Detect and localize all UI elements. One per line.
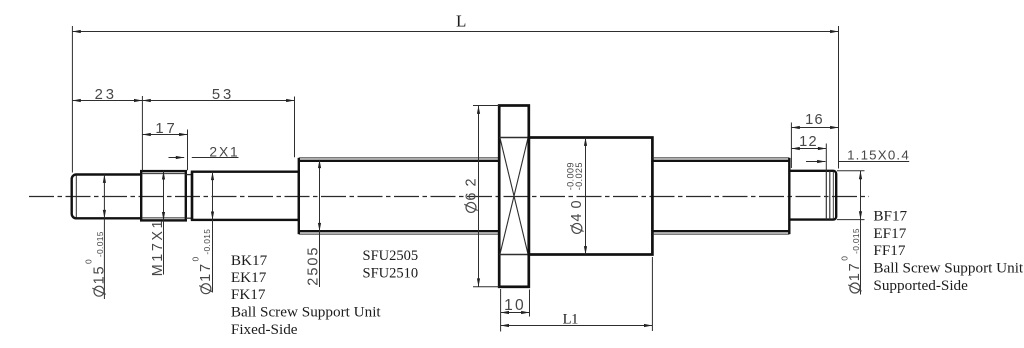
dimension 53	[142, 87, 294, 171]
svg-text:BF17: BF17	[873, 208, 907, 225]
flange section cross lines	[499, 138, 529, 255]
svg-text:-0.015: -0.015	[202, 229, 212, 255]
svg-text:Supported-Side: Supported-Side	[873, 277, 968, 294]
callout 1.15X0.4 circlip groove	[806, 147, 910, 162]
label block supported side bearings	[873, 208, 1024, 294]
dimension Ø40 -0.009/-0.025	[566, 138, 586, 255]
svg-text:Ball Screw Support Unit: Ball Screw Support Unit	[873, 260, 1024, 277]
svg-text:BK17: BK17	[231, 252, 268, 269]
svg-text:FK17: FK17	[231, 286, 266, 303]
dimension L overall length	[72, 11, 838, 172]
svg-text:Fixed-Side: Fixed-Side	[231, 321, 298, 338]
svg-text:0: 0	[839, 256, 849, 261]
dimension 17	[142, 121, 187, 170]
svg-text:L1: L1	[563, 312, 579, 328]
dimension 23	[72, 87, 142, 103]
svg-text:15: 15	[91, 265, 107, 285]
svg-text:L: L	[456, 11, 466, 30]
svg-text:1.15X0.4: 1.15X0.4	[847, 147, 910, 162]
svg-text:0: 0	[190, 256, 200, 261]
svg-text:23: 23	[95, 87, 117, 103]
dimension Ø17 0/-0.015 right	[837, 171, 865, 295]
svg-text:62: 62	[463, 172, 479, 200]
label ball screw models	[363, 248, 419, 282]
svg-text:EK17: EK17	[231, 269, 267, 286]
svg-text:M17X1: M17X1	[150, 218, 166, 276]
svg-text:0: 0	[84, 259, 94, 264]
svg-text:53: 53	[212, 87, 234, 103]
shaft journal Ø15 left end	[72, 175, 141, 219]
svg-text:17: 17	[155, 121, 177, 137]
svg-text:17: 17	[847, 261, 863, 281]
dimension 2505 screw	[305, 160, 321, 287]
ballnut body Ø40	[529, 138, 653, 255]
svg-text:-0.015: -0.015	[95, 231, 105, 257]
ball screw shaft thread right of nut	[652, 158, 789, 234]
centerline of shaft	[29, 196, 869, 198]
svg-text:-0.015: -0.015	[851, 228, 861, 254]
svg-text:10: 10	[504, 297, 526, 314]
undercut groove 2X1	[186, 172, 192, 220]
svg-text:17: 17	[198, 262, 214, 282]
dimension Ø62 flange	[463, 106, 499, 287]
svg-text:40: 40	[569, 195, 585, 221]
ball screw shaft thread left of nut	[299, 158, 499, 234]
threaded section M17X1	[141, 171, 186, 220]
dimension M17X1 thread	[150, 171, 166, 276]
svg-text:-0.025: -0.025	[574, 162, 584, 190]
svg-text:Ball Screw Support Unit: Ball Screw Support Unit	[231, 304, 382, 321]
shaft journal Ø17 left	[192, 172, 299, 220]
dimension Ø15 0/-0.015	[84, 175, 108, 300]
ballnut flange Ø62	[499, 106, 529, 287]
svg-text:EF17: EF17	[873, 225, 906, 242]
dimension Ø17 0/-0.015 left	[190, 172, 214, 294]
svg-text:12: 12	[799, 134, 818, 150]
svg-text:16: 16	[805, 112, 824, 128]
svg-text:2X1: 2X1	[209, 145, 239, 160]
dimension 16	[791, 112, 838, 168]
callout 2X1 undercut	[169, 145, 240, 160]
dimension 12	[791, 134, 826, 171]
label block fixed side bearings	[231, 252, 382, 338]
svg-text:SFU2505: SFU2505	[363, 248, 419, 264]
svg-text:SFU2510: SFU2510	[363, 266, 419, 282]
dimension 10 flange width	[501, 289, 530, 332]
svg-text:FF17: FF17	[873, 242, 905, 259]
shaft journal Ø17 right end	[789, 171, 836, 220]
svg-text:2505: 2505	[305, 246, 321, 286]
circlip groove 1.15X0.4	[826, 171, 830, 220]
dimension L1	[501, 257, 653, 331]
